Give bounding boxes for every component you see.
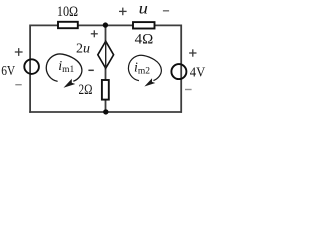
svg-text:10Ω: 10Ω (57, 4, 78, 20)
dependent source U1 (diamond 2u) (98, 41, 114, 68)
label - (6V polarity) (15, 84, 21, 86)
mesh current im1 arrow (46, 54, 82, 88)
svg-text:2u: 2u (76, 42, 90, 57)
svg-text:6V: 6V (1, 64, 15, 79)
resistor R3 2ohm (vertical box) (102, 80, 109, 100)
wire: right vertical branch (180, 25, 182, 113)
svg-text:2Ω: 2Ω (79, 82, 93, 98)
label + (diamond polarity) (91, 33, 98, 35)
voltage source V1 6V (circle) (24, 59, 39, 74)
label + (4V polarity) (189, 52, 196, 54)
label - (diamond polarity) (88, 69, 93, 71)
mesh current im2 arrow (128, 55, 161, 86)
svg-text:im2: im2 (134, 61, 150, 77)
label + (6V polarity) (15, 51, 23, 53)
label - (4V polarity) (185, 89, 192, 91)
svg-text:4V: 4V (190, 65, 206, 80)
label + (u polarity) (119, 10, 127, 12)
label - (u polarity) (163, 10, 169, 12)
svg-text:u: u (139, 1, 149, 18)
wire: top-left horizontal (node A to 10ohm resistor) (30, 24, 58, 26)
wire inside diamond (105, 41, 107, 68)
svg-text:im1: im1 (58, 59, 74, 75)
wire: bottom horizontal (29, 111, 182, 113)
node dot top junction (103, 22, 108, 27)
node dot bottom junction (103, 109, 108, 114)
wire: top middle (10ohm to top junction) (78, 24, 134, 26)
resistor R2 4ohm (box) (133, 22, 155, 28)
resistor R1 10ohm (box) (58, 22, 78, 28)
wire: left vertical branch (29, 25, 31, 113)
svg-text:4Ω: 4Ω (135, 32, 154, 48)
voltage source V2 4V (circle) (171, 64, 186, 79)
wire: middle vertical branch (105, 25, 107, 112)
wire: top right (4ohm to top-right corner) (155, 24, 183, 26)
